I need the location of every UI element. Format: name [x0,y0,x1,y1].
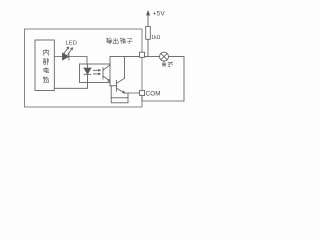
optocoupler LED [84,64,91,83]
label 内部电路 (internal circuit) char 内 [43,49,49,55]
output terminal square [140,52,145,57]
wire resistor R1 to +5V [147,15,149,27]
wire lamp to right rail [169,56,185,58]
wire opto LED return drop [87,83,89,89]
phototransistor [103,65,110,81]
svg-text:COM: COM [146,90,161,97]
svg-text:1kΩ: 1kΩ [151,35,160,41]
internal circuit box U1 [35,40,54,91]
wire resistor to emitter [127,93,129,98]
wire transistor collector riser [124,57,126,79]
label char 端 [120,38,126,44]
LED indicator D1 [63,53,69,60]
resistor R1 1kohm [146,27,151,40]
svg-text:LED: LED [66,40,78,46]
lamp load [160,52,169,61]
wire collector rail to output terminal [110,56,140,58]
wire return to internal circuit [54,87,87,89]
wire phototransistor collector riser [109,57,111,65]
+5V arrow [146,11,149,16]
wire junction to resistor R1 [147,39,149,56]
label 输出端子 (output terminal) char 输 [106,38,111,43]
LED emission arrow 2 [68,48,73,55]
wire right rail down [183,57,185,101]
label char 路 [43,77,48,83]
wire output terminal to lamp [145,56,160,58]
wire drop into optocoupler [86,57,88,65]
label char 出 [113,38,118,44]
light arrow 2 [93,73,100,75]
wire from LED to optocoupler [69,56,87,58]
svg-text:+5V: +5V [153,10,166,17]
PLC enclosure box [25,29,143,107]
wire phototransistor emitter drop [109,81,111,86]
wire base to resistor [110,86,112,98]
wire to transistor base [110,85,117,87]
wire transistor emitter to COM terminal [125,92,140,94]
optocoupler box U2 [80,64,111,83]
COM terminal square [140,90,145,95]
wire bottom return to COM [142,100,184,102]
label char 电 [44,68,49,73]
light arrow 1 [93,70,100,72]
label char 载 [168,62,173,67]
wire COM terminal stub [141,96,143,102]
output transistor Q1 [117,78,125,93]
wire top from internal circuit to LED anode [54,56,62,58]
label char 子 [127,39,132,44]
resistor R2 base-emitter [111,98,128,103]
label 负载 (load) char 负 [162,62,165,67]
label char 部 [43,58,48,65]
LED emission arrow 1 [64,47,69,54]
